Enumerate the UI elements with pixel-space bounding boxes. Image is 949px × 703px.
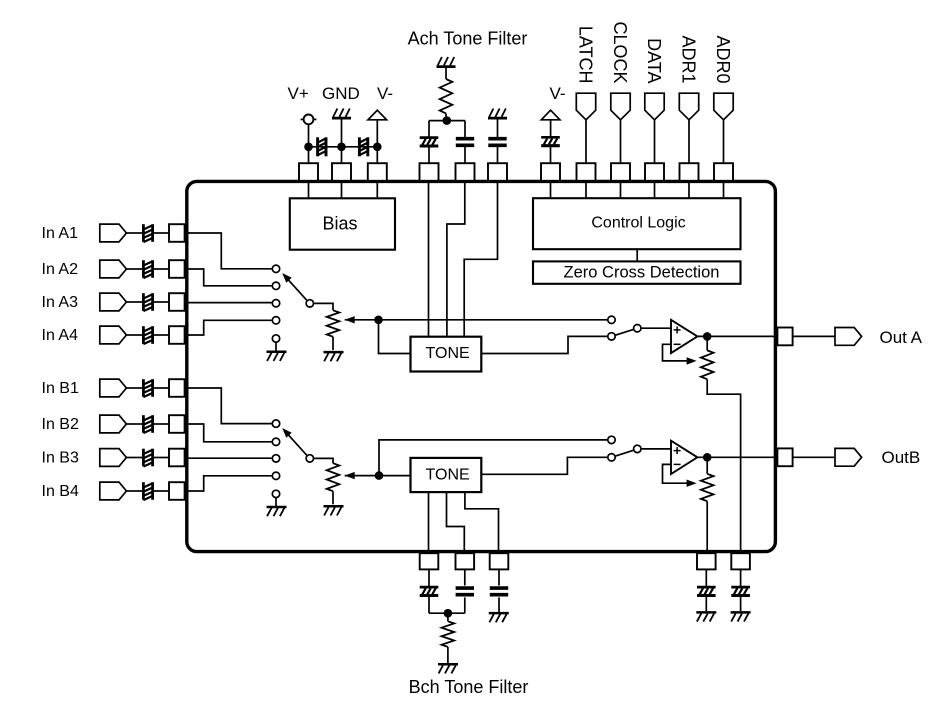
svg-text:V-: V-	[550, 84, 566, 103]
svg-text:DATA: DATA	[644, 38, 664, 83]
svg-text:In B3: In B3	[42, 449, 79, 466]
svg-text:V-: V-	[377, 84, 393, 103]
svg-text:Bch Tone Filter: Bch Tone Filter	[409, 677, 529, 697]
svg-text:Bias: Bias	[322, 214, 357, 234]
svg-text:In B4: In B4	[42, 483, 79, 500]
svg-text:CLOCK: CLOCK	[610, 21, 630, 83]
svg-text:Zero Cross Detection: Zero Cross Detection	[564, 263, 720, 281]
svg-text:In B2: In B2	[42, 416, 79, 433]
svg-text:V+: V+	[288, 84, 309, 103]
svg-text:In A2: In A2	[42, 261, 79, 278]
svg-text:LATCH: LATCH	[576, 26, 596, 84]
svg-text:Ach Tone Filter: Ach Tone Filter	[408, 29, 528, 49]
svg-text:ADR1: ADR1	[679, 35, 699, 83]
svg-text:In A3: In A3	[42, 294, 79, 311]
svg-text:In A1: In A1	[42, 225, 79, 242]
svg-text:TONE: TONE	[426, 466, 470, 483]
svg-text:OutB: OutB	[882, 448, 921, 467]
svg-text:In A4: In A4	[42, 327, 79, 344]
svg-text:Out A: Out A	[880, 328, 923, 347]
svg-text:GND: GND	[322, 84, 360, 103]
svg-text:Control Logic: Control Logic	[591, 215, 685, 232]
svg-text:In B1: In B1	[42, 380, 79, 397]
svg-text:TONE: TONE	[426, 345, 470, 362]
svg-text:ADR0: ADR0	[713, 35, 733, 83]
